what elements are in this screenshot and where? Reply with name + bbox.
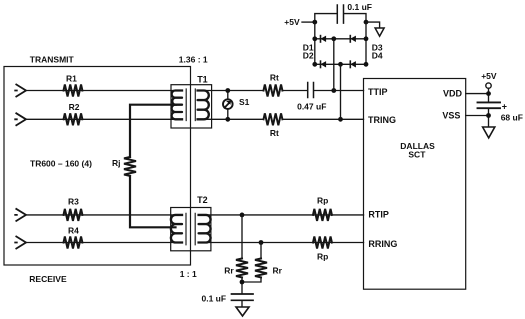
node VDD: [486, 91, 491, 96]
svg-text:D4: D4: [372, 50, 383, 60]
resistor Rj: [112, 157, 136, 176]
wire right node to ground: [366, 22, 380, 27]
svg-text:68 uF: 68 uF: [501, 112, 523, 122]
svg-text:R1: R1: [66, 73, 77, 83]
node RRING junction: [259, 240, 264, 245]
svg-text:T2: T2: [197, 195, 208, 205]
node supply left: [312, 20, 317, 25]
wire left branch up to 0.1uF: [315, 14, 337, 23]
resistor Rr (left): [224, 259, 248, 278]
wire diode bridge left rail: [314, 22, 316, 64]
wire 0.47uF to TTIP pin: [314, 90, 363, 92]
ground (top): [375, 28, 384, 36]
capacitor 0.1 uF (top): [337, 2, 372, 23]
wire cap to ground: [241, 300, 243, 306]
wire Rj to T2 centre-tap (heavy): [130, 176, 176, 227]
svg-text:R3: R3: [68, 197, 79, 207]
resistor Rp (bottom): [313, 237, 332, 262]
T1 secondary winding: [198, 91, 209, 120]
T1 primary winding: [172, 91, 182, 120]
node row2 mid: [338, 62, 343, 67]
wire bridge tap to TRING: [340, 64, 342, 119]
svg-text:Rj: Rj: [112, 158, 121, 168]
node row1 right: [364, 36, 369, 41]
svg-text:Rr: Rr: [273, 265, 283, 275]
svg-text:SCT: SCT: [408, 150, 426, 160]
resistor R1: [64, 73, 83, 96]
svg-text:R4: R4: [68, 225, 79, 235]
node TRING junction: [338, 117, 343, 122]
svg-text:RRING: RRING: [368, 239, 397, 249]
wire 0.1uF to right node: [344, 14, 366, 23]
ground (bottom): [236, 307, 249, 316]
capacitor 0.47 uF: [297, 83, 326, 112]
svg-text:+5V: +5V: [284, 17, 300, 27]
T2 primary winding: [171, 215, 182, 243]
svg-text:T1: T1: [197, 74, 208, 84]
surge suppressor S1: [223, 91, 250, 120]
wire T1 centre-tap (heavy): [130, 105, 176, 157]
terminal circle +5V: [486, 83, 491, 88]
T2 core lines: [186, 213, 195, 245]
svg-text:1 : 1: 1 : 1: [180, 269, 197, 279]
wire Rr left to cap: [241, 278, 243, 294]
svg-text:Rt: Rt: [270, 128, 279, 138]
capacitor 68 uF: [478, 101, 523, 122]
resistor Rr (right): [255, 259, 283, 278]
svg-text:Rp: Rp: [317, 196, 328, 206]
wire diode bridge right rail: [365, 22, 367, 64]
wire R1 line: [26, 90, 182, 92]
wire R2 line: [26, 118, 182, 120]
input arrow R4 line: [15, 237, 26, 249]
input arrow R1 line: [15, 85, 26, 97]
wire bridge tap to TTIP: [333, 39, 335, 91]
node RTIP junction: [240, 213, 245, 218]
svg-text:TRING: TRING: [368, 115, 396, 125]
node row1 left: [312, 36, 317, 41]
transformer T2: [171, 195, 211, 251]
svg-text:S1: S1: [239, 97, 250, 107]
resistor R2: [64, 102, 83, 125]
wire R4 line: [26, 242, 182, 244]
svg-text:Rr: Rr: [224, 265, 234, 275]
resistor R3: [64, 197, 83, 221]
wire RRING line: [205, 242, 364, 244]
svg-text:1.36 : 1: 1.36 : 1: [179, 55, 208, 65]
wire TRING line from T1 secondary: [202, 118, 264, 120]
wire diode row 1: [315, 38, 366, 40]
svg-text:D2: D2: [303, 50, 314, 60]
resistor R4: [64, 225, 83, 248]
node T1 secondary top: [225, 88, 230, 93]
capacitor 0.1 uF (bottom): [202, 294, 254, 304]
wire Rt to 0.47uF: [283, 90, 308, 92]
svg-text:VDD: VDD: [443, 89, 463, 99]
node supply right: [364, 20, 369, 25]
node row1 mid: [331, 36, 336, 41]
svg-text:TR600 – 160 (4): TR600 – 160 (4): [30, 159, 92, 169]
node VSS: [486, 113, 491, 118]
input arrow R3 line: [15, 209, 26, 221]
wire R3 line: [26, 214, 182, 216]
wire TTIP line from T1 secondary: [202, 90, 264, 92]
wire +5V stub: [302, 21, 315, 23]
svg-text:+: +: [502, 101, 507, 111]
svg-text:0.1 uF: 0.1 uF: [202, 294, 227, 304]
enclosure box TR600 resistor network: [4, 67, 191, 266]
svg-text:TRANSMIT: TRANSMIT: [30, 55, 75, 65]
svg-text:Rp: Rp: [317, 252, 328, 262]
svg-text:+5V: +5V: [481, 71, 497, 81]
resistor Rp (top): [313, 196, 332, 221]
wire VSS pin: [466, 115, 489, 117]
transformer T1: [171, 74, 212, 128]
diode D4: [350, 50, 383, 67]
wire VDD pin: [466, 93, 489, 95]
node Rr junction: [240, 280, 245, 285]
T2 secondary winding: [199, 215, 211, 243]
wire +5V terminal to VDD: [488, 88, 490, 101]
input arrow R2 line: [15, 113, 26, 125]
wire Rr right to junction: [242, 278, 261, 283]
T1 core lines: [186, 89, 195, 121]
svg-text:RECEIVE: RECEIVE: [29, 274, 67, 284]
ground (right): [483, 127, 495, 138]
resistor Rt (top): [264, 73, 283, 97]
diode D2: [303, 50, 326, 67]
node T1 secondary bottom: [225, 117, 230, 122]
svg-text:Rt: Rt: [270, 73, 279, 83]
node row2 left: [312, 62, 317, 67]
wire RRING node down to Rr: [260, 243, 262, 259]
node row2 right: [364, 62, 369, 67]
wire 68uF to VSS: [488, 109, 490, 126]
svg-text:0.47 uF: 0.47 uF: [297, 102, 326, 112]
diode D1: [303, 36, 326, 53]
wire RTIP node down to Rr: [241, 215, 243, 259]
wire RTIP line: [205, 214, 364, 216]
node TTIP junction: [331, 88, 336, 93]
wire diode row 2: [315, 63, 366, 65]
svg-text:VSS: VSS: [442, 110, 460, 120]
resistor Rt (bottom): [264, 113, 283, 138]
svg-text:RTIP: RTIP: [368, 210, 389, 220]
diode D3: [350, 36, 383, 53]
svg-text:TTIP: TTIP: [368, 87, 388, 97]
IC DALLAS SCT: [364, 79, 466, 290]
svg-text:0.1 uF: 0.1 uF: [347, 2, 372, 12]
svg-text:R2: R2: [69, 102, 80, 112]
wire Rt to TRING pin: [283, 118, 364, 120]
